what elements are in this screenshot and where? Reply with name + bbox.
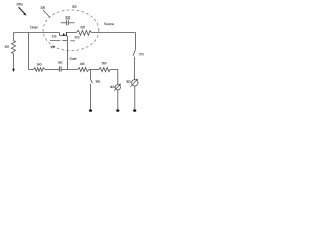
wire gate lead down [66, 36, 68, 70]
svg-text:Gate: Gate [69, 57, 76, 61]
leader line 335 [43, 10, 50, 18]
dashed ellipse 305 [43, 10, 99, 51]
wire R345 to R350 [89, 69, 99, 71]
svg-text:370: 370 [139, 52, 144, 56]
resistor R320 on top rail [76, 30, 91, 35]
transistor M1 body arrow [62, 33, 65, 36]
wire top rail right of transistor [66, 32, 76, 34]
wire top rail left (drain side) [14, 32, 60, 34]
switch S1 blade [90, 79, 92, 83]
capacitor C318 right lead [68, 22, 74, 24]
svg-text:Drain: Drain [30, 26, 38, 30]
wire switch S1 branch [90, 70, 92, 80]
capacitor C318 left lead [61, 22, 66, 24]
wire top rail to right edge [91, 32, 135, 34]
wire left loop vertical [28, 33, 30, 70]
terminal dot 2 [116, 109, 119, 111]
arrow 300a [19, 7, 25, 14]
terminal dot 3 [133, 109, 136, 111]
svg-text:345: 345 [80, 62, 85, 66]
svg-text:320: 320 [80, 25, 85, 29]
source V2 circle [115, 85, 120, 90]
source V3 circle [132, 80, 138, 86]
svg-text:350: 350 [102, 61, 107, 65]
svg-text:318: 318 [65, 15, 70, 19]
switch S2 blade [133, 50, 135, 56]
capacitor C318 plates [65, 20, 67, 25]
wire bottom rail left [29, 69, 34, 71]
svg-text:365: 365 [126, 80, 131, 84]
svg-text:330: 330 [50, 45, 55, 49]
svg-text:360: 360 [110, 85, 115, 89]
wire right edge to source V3 [134, 57, 136, 80]
svg-text:305: 305 [72, 5, 77, 9]
svg-text:355: 355 [95, 80, 100, 84]
source V2 arrow [114, 84, 120, 91]
source V3 arrow [130, 79, 137, 87]
arrowhead down [12, 69, 15, 72]
wire C342 to gate node [61, 69, 78, 71]
label 318 underline [65, 18, 70, 20]
svg-text:302: 302 [4, 45, 9, 49]
capacitor C342 plates [58, 66, 60, 71]
label 315 underline [50, 40, 60, 42]
svg-text:335: 335 [40, 6, 45, 10]
label 325 underline [70, 40, 75, 42]
svg-text:325: 325 [75, 35, 80, 39]
wire right edge upper [135, 33, 137, 50]
transistor M1 source bar [65, 32, 67, 36]
svg-text:305a: 305a [16, 2, 23, 6]
resistor R302 column lead [13, 33, 15, 41]
wire bottom rail right corner [110, 70, 118, 85]
svg-text:340: 340 [37, 63, 42, 67]
terminal dot 1 [89, 109, 92, 111]
wire S1 to terminal [90, 84, 92, 110]
transistor M1 channel step [60, 33, 67, 36]
wire bottom rail to C342 [45, 69, 59, 71]
wire V3 to terminal [134, 86, 136, 110]
resistor R345 [78, 68, 90, 72]
wire V2 to terminal [117, 90, 119, 110]
svg-text:342: 342 [58, 61, 63, 65]
svg-text:Source: Source [104, 22, 114, 26]
transistor M1 gate plate [62, 40, 67, 42]
resistor R302 zigzag [12, 41, 16, 54]
wire R302 to arrow [13, 54, 15, 70]
svg-text:315: 315 [52, 34, 57, 38]
resistor R340 [34, 68, 46, 72]
resistor R350 [99, 68, 110, 72]
